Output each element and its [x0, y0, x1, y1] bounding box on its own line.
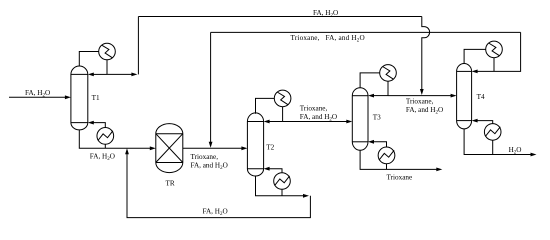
wire T1 distillate to riser [107, 73, 132, 75]
wire condenser E7 outlet down [493, 58, 495, 72]
column T1 [71, 66, 88, 130]
wire T2 reboiler return [269, 169, 282, 173]
wire T2 reflux line [269, 121, 283, 123]
column T4 [457, 64, 472, 129]
wire T1 bottoms [79, 130, 150, 148]
svg-text:T3: T3 [373, 114, 381, 122]
wire T4 reboiler return [477, 121, 493, 124]
arrow reflux into T1 [88, 73, 94, 77]
wire T4 distillate to second recycle [494, 32, 521, 71]
reboiler E2 [97, 128, 114, 145]
condenser E3 [274, 90, 291, 107]
wire T4 reflux line [477, 70, 494, 72]
arrow T3 distillate into T4 [451, 94, 457, 98]
arrow top recycle into T4 feed line [420, 89, 424, 95]
wire riser x=138.4 [137, 17, 139, 75]
svg-text:FA, and H2O: FA, and H2O [191, 161, 228, 171]
svg-text:FA, H2O: FA, H2O [203, 208, 228, 218]
wire top recycle downcomer with hop [422, 17, 430, 90]
svg-text:FA, and H2O: FA, and H2O [406, 106, 443, 116]
column T2 [247, 113, 263, 176]
arrow distillate into riser [131, 73, 137, 77]
wire T2 bottoms [256, 176, 304, 196]
wire bottom recycle loop [127, 154, 310, 218]
arrow reboiler return into T2 [264, 167, 270, 171]
wire T3 bottoms product [360, 150, 437, 169]
wire T2 distillate to T3 [283, 121, 347, 123]
reboiler E6 [378, 147, 395, 164]
svg-text:T4: T4 [477, 93, 485, 101]
wire TR outlet to T2 [183, 147, 242, 149]
wire reboiler E2 bottom connector [104, 144, 106, 148]
arrow bottom recycle joining T1 bottoms line [125, 148, 129, 154]
svg-text:Trioxane,: Trioxane, [191, 153, 219, 161]
svg-text:TR: TR [166, 180, 175, 188]
svg-text:Trioxane, FA, and H2O: Trioxane, FA, and H2O [291, 34, 365, 44]
wire T1 overhead to condenser [79, 52, 98, 67]
svg-text:FA, H2O: FA, H2O [313, 9, 338, 19]
condenser E5 [380, 65, 397, 82]
svg-text:Trioxane,: Trioxane, [406, 98, 434, 106]
arrow reflux into T2 [264, 120, 270, 124]
wire T2 overhead to condenser [256, 98, 275, 113]
svg-text:Trioxane: Trioxane [387, 173, 413, 181]
arrow T4 bottoms product (H2O) [531, 153, 537, 157]
reboiler E8 [484, 124, 501, 141]
wire T3 reboiler return [374, 142, 387, 147]
wire condenser E1 outlet down [106, 60, 108, 75]
svg-text:T1: T1 [92, 94, 100, 102]
reboiler E4 [274, 173, 291, 190]
wire condenser E5 outlet down [387, 81, 389, 95]
arrow reboiler return into T3 [368, 140, 374, 144]
wire T3 distillate to T4 [388, 95, 451, 97]
condenser E7 [486, 41, 503, 58]
wire reboiler E6 bottom connector [386, 164, 388, 170]
wire T1 reflux line [93, 73, 107, 75]
arrow reboiler return into T4 [472, 119, 478, 123]
wire T4 bottoms product [464, 129, 531, 155]
wire top recycle line FA,H2O [138, 16, 421, 18]
svg-text:Trioxane,: Trioxane, [300, 105, 328, 113]
wire T4 overhead to condenser [464, 49, 486, 63]
wire condenser E3 outlet down [282, 107, 284, 122]
reactor TR [156, 124, 183, 173]
svg-text:FA, H2O: FA, H2O [90, 152, 115, 162]
arrow T2 bottoms into recycle drop [303, 194, 309, 198]
condenser E1 [99, 43, 116, 60]
arrow into T1 feed [65, 95, 71, 99]
arrow reboiler return into T1 [88, 121, 94, 125]
wire T3 reflux line [374, 95, 389, 97]
wire second recycle line Trioxane FA H2O [211, 31, 521, 33]
arrow T1 bottoms into TR [150, 146, 156, 150]
wire T1 reboiler return [93, 123, 105, 128]
wire second recycle downcomer x=210.6 [210, 32, 212, 142]
wire T3 overhead to condenser [360, 73, 380, 88]
wire feed to T1 [9, 96, 65, 98]
arrow reflux into T4 [472, 70, 478, 74]
arrow second recycle into TR outlet line [209, 142, 213, 148]
arrow T3 bottoms product (Trioxane) [436, 168, 442, 172]
arrow reflux into T3 [368, 94, 374, 98]
arrow T2 distillate into T3 [346, 120, 352, 124]
wire reboiler E4 bottom connector [281, 189, 283, 196]
svg-text:T2: T2 [266, 144, 274, 152]
column T3 [352, 88, 368, 151]
arrow TR outlet into T2 [241, 146, 247, 150]
wire reboiler E8 bottom connector [492, 140, 494, 154]
